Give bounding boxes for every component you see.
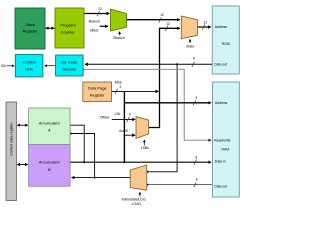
svg-text:Address: Address xyxy=(215,25,228,29)
svg-text:12: 12 xyxy=(98,7,102,11)
svg-text:3: 3 xyxy=(119,85,121,89)
svg-text:Stack: Stack xyxy=(25,22,35,27)
svg-text:Op Code: Op Code xyxy=(61,59,78,64)
svg-text:RAM: RAM xyxy=(222,148,230,152)
svg-text:9: 9 xyxy=(196,96,198,100)
svg-text:Accumulator: Accumulator xyxy=(38,121,61,125)
svg-text:9: 9 xyxy=(129,112,131,116)
svg-text:8: 8 xyxy=(195,156,197,160)
svg-text:Data out: Data out xyxy=(214,184,227,188)
svg-text:8: 8 xyxy=(196,177,198,181)
svg-text:LSb: LSb xyxy=(115,112,121,116)
svg-text:Control: Control xyxy=(23,59,36,64)
svg-text:Data in: Data in xyxy=(215,160,226,164)
svg-text:offset: offset xyxy=(90,28,99,32)
svg-text:12: 12 xyxy=(166,22,170,26)
svg-text:A: A xyxy=(47,129,51,133)
svg-text:ROM: ROM xyxy=(222,42,230,46)
svg-text:Index: Index xyxy=(186,45,195,49)
svg-text:Data out: Data out xyxy=(214,62,227,66)
svg-text:LSBs: LSBs xyxy=(141,146,149,150)
svg-text:Accumulator: Accumulator xyxy=(38,161,61,165)
svg-text:Register: Register xyxy=(23,29,38,34)
svg-text:MSb: MSb xyxy=(115,81,122,85)
svg-text:B: B xyxy=(48,168,51,172)
svg-text:Register: Register xyxy=(90,92,106,97)
svg-text:12: 12 xyxy=(203,20,207,24)
svg-text:Unit: Unit xyxy=(25,66,33,71)
svg-text:Control data register: Control data register xyxy=(10,122,14,156)
svg-text:Branch: Branch xyxy=(114,36,125,40)
svg-text:Counter: Counter xyxy=(61,30,76,35)
svg-text:Decode: Decode xyxy=(63,66,78,71)
svg-text:LOAD: LOAD xyxy=(132,202,142,206)
svg-text:8: 8 xyxy=(193,56,195,60)
svg-text:Acc B: Acc B xyxy=(119,129,128,133)
svg-text:Read/write: Read/write xyxy=(214,139,230,143)
svg-text:Program: Program xyxy=(60,22,76,27)
svg-text:12: 12 xyxy=(160,13,164,17)
svg-text:Offset: Offset xyxy=(100,115,110,119)
svg-text:Address: Address xyxy=(215,101,228,105)
svg-text:Branch: Branch xyxy=(89,19,100,23)
svg-text:Immediate/LDO,: Immediate/LDO, xyxy=(122,197,147,201)
svg-text:Data Page: Data Page xyxy=(88,85,108,90)
svg-text:Clk: Clk xyxy=(1,64,6,68)
